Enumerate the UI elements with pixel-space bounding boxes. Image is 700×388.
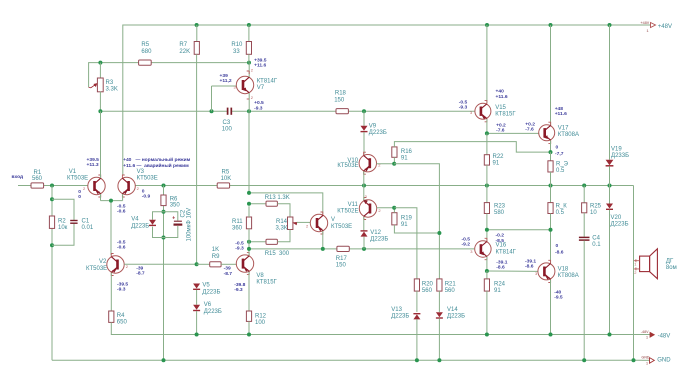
svg-text:R12: R12 [255,313,267,319]
svg-text:-8.5: -8.5 [496,238,505,244]
svg-text:-9.3: -9.3 [234,287,243,293]
resistor R22 91 [484,133,504,185]
svg-text:-8.7: -8.7 [224,271,233,277]
svg-text:V3: V3 [137,169,145,175]
svg-text:V12: V12 [370,230,381,236]
svg-text:0.5: 0.5 [556,210,565,216]
svg-text:33: 33 [233,49,240,55]
transistor V8 KT815G [224,249,278,311]
svg-text:150: 150 [334,98,345,104]
port +48V [640,21,672,33]
svg-text:GND: GND [657,357,671,363]
resistor R15 300 [247,230,290,257]
svg-text:V1: V1 [69,169,77,175]
wire +48V top rail [123,25,640,175]
svg-text:R24: R24 [494,281,506,287]
svg-text:КТ503Е: КТ503Е [137,175,158,181]
svg-text:3.3K: 3.3K [106,87,118,93]
svg-text:0: 0 [556,243,559,249]
svg-text:-9.2: -9.2 [462,242,471,248]
resistor R5 10K feedback [217,169,231,188]
svg-text:-39.5: -39.5 [117,281,128,287]
svg-text:C3: C3 [223,120,231,126]
svg-text:-39: -39 [224,266,231,272]
svg-text:КТ815Г: КТ815Г [495,111,516,117]
svg-text:91: 91 [493,161,500,167]
svg-text:0: 0 [142,188,145,194]
svg-text:+40: +40 [496,89,505,95]
resistor R2 10k [49,216,67,231]
svg-text:R13 1.3K: R13 1.3K [265,195,290,201]
resistor R6 350 [161,195,180,209]
svg-text:+40 — нормальный режим: +40 — нормальный режим [123,156,190,163]
svg-text:+11.6: +11.6 [555,111,567,117]
transistor V15 KT815G [459,25,517,134]
svg-text:+11.6: +11.6 [254,63,266,69]
wire bootstrap R16 top [394,142,550,153]
transistor V7 KT814G [212,63,278,112]
resistor R1 560 [31,170,44,188]
transistor V18 KT808A [525,243,579,335]
svg-text:100: 100 [255,320,266,326]
wire -48V rail [111,333,641,337]
capacitor C4 0.1 [579,236,601,361]
svg-text:-48V: -48V [641,330,649,334]
svg-text:КТ502Е: КТ502Е [337,209,358,215]
port -48V [641,330,670,340]
diode V5 D223B [193,283,220,296]
svg-text:Д223Б: Д223Б [447,314,465,320]
svg-text:+0.5: +0.5 [254,100,264,106]
svg-text:-0.5: -0.5 [117,203,126,209]
svg-text:100: 100 [222,127,233,133]
svg-text:КТ814Г: КТ814Г [257,79,278,85]
svg-text:-8.6: -8.6 [555,250,564,256]
svg-text:+0.2: +0.2 [496,122,506,128]
svg-text:0: 0 [78,194,81,200]
svg-text:-39.1: -39.1 [496,259,507,265]
svg-text:Д223Б: Д223Б [131,223,149,229]
svg-text:350: 350 [170,203,181,209]
svg-text:-0.5: -0.5 [235,240,244,246]
svg-text:R15 300: R15 300 [265,251,290,257]
port GND [641,355,671,365]
svg-text:150: 150 [336,263,347,269]
svg-text:+48V: +48V [641,21,650,25]
svg-text:V4: V4 [131,217,139,223]
resistor R5 680 [139,42,152,65]
svg-text:V13: V13 [391,307,402,313]
resistor R10 33 [231,25,251,63]
svg-text:1: 1 [646,336,648,340]
svg-text:V20: V20 [611,215,622,221]
svg-text:Д223Б: Д223Б [370,237,388,243]
svg-text:0.1: 0.1 [592,242,601,248]
transistor V3 KT503E [118,169,158,201]
svg-text:V15: V15 [495,105,506,111]
wire VAS row y111.2 [100,110,474,112]
diode V12 D223B [361,230,389,249]
wire driver row y248.9 [247,247,474,251]
resistor R18 150 [334,91,348,114]
svg-text:560: 560 [445,288,456,294]
resistor R_E 0.5 [548,152,569,185]
svg-text:R1: R1 [34,170,42,176]
svg-text:-48V: -48V [658,333,671,339]
svg-text:-9.3: -9.3 [459,105,468,111]
wire V5-V6 [196,290,198,305]
resistor R7 22K [179,25,199,55]
svg-text:680: 680 [141,49,152,55]
svg-text:-9.3: -9.3 [235,246,244,252]
svg-text:560: 560 [32,176,43,182]
label voltages V7 [220,57,267,111]
svg-text:Д223Б: Д223Б [611,222,629,228]
svg-text:R_К: R_К [556,204,568,210]
svg-text:+0.2: +0.2 [525,121,535,127]
resistor R12 100 [246,311,266,335]
diode V6 D223B [193,302,222,334]
svg-text:+11.6: +11.6 [496,94,508,100]
svg-text:C4: C4 [592,236,600,242]
svg-text:V8: V8 [256,273,264,279]
svg-text:R18: R18 [335,91,347,97]
svg-text:-39: -39 [136,265,143,271]
node V17 emitter [549,150,553,154]
resistor R20 560 [414,279,433,312]
wire input row y185.5 [18,185,634,187]
svg-text:8ом: 8ом [666,265,677,271]
node +48V rail junctions [195,23,612,27]
svg-text:650: 650 [117,319,128,325]
svg-text:V6: V6 [204,302,212,308]
svg-text:Д223Б: Д223Б [391,314,409,320]
svg-text:-7.6: -7.6 [496,128,505,134]
svg-text:КТ503Е: КТ503Е [86,266,107,272]
diode V13 D223B [391,307,420,360]
wire V16 out to V18 base [485,269,538,273]
node V2 base junction [195,262,199,266]
svg-text:-8.6: -8.6 [496,265,505,271]
wire V11 base row to R20 column [394,208,417,279]
transistor V17 KT808A [525,25,579,157]
svg-text:1: 1 [646,362,648,366]
svg-text:-0.2: -0.2 [496,233,505,239]
svg-text:0.01: 0.01 [82,225,94,231]
resistor R_K 0.5 [548,186,567,264]
diode V4 D223B [131,212,163,238]
wire V3 base node x163.5 [162,186,166,361]
svg-text:V: V [331,217,335,223]
label input [12,175,25,180]
svg-text:R19: R19 [401,216,413,222]
svg-text:V7: V7 [257,85,265,91]
svg-text:R22: R22 [493,154,505,160]
node y111.2 junctions [98,109,366,113]
node y62.6 junctions [98,61,251,65]
svg-text:+48: +48 [555,106,564,112]
svg-text:0: 0 [556,145,559,151]
svg-text:C1: C1 [82,219,90,225]
svg-text:R5: R5 [222,169,230,175]
svg-text:R5: R5 [141,42,149,48]
diode V9 D223B [361,111,387,154]
resistor R13 1.3K [249,195,290,217]
svg-text:КТ503Е: КТ503Е [331,224,352,230]
svg-text:Д233Б: Д233Б [611,153,629,159]
svg-text:Д223Б: Д223Б [202,290,220,296]
svg-text:560: 560 [422,288,433,294]
svg-text:КТ814Г: КТ814Г [496,249,517,255]
svg-text:КТ808А: КТ808А [558,132,579,138]
speaker DG 8om [634,249,677,279]
svg-text:R21: R21 [445,281,457,287]
transistor V10 KT503E [337,152,394,185]
transistor V bias KT503E [235,212,352,252]
svg-text:КТ503Е: КТ503Е [337,163,358,169]
node R13 left [247,202,251,206]
svg-text:V19: V19 [611,147,622,153]
svg-text:-39.8: -39.8 [234,282,245,288]
svg-text:+11.6 — аварийный режим: +11.6 — аварийный режим [123,162,189,169]
svg-text:91: 91 [401,222,408,228]
svg-text:91: 91 [494,288,501,294]
svg-text:R10: R10 [231,42,243,48]
transistor V11 KT502E [337,186,394,231]
svg-text:-39.1: -39.1 [525,258,536,264]
svg-text:580: 580 [494,210,505,216]
resistor R24 91 [484,271,505,335]
wire GND rail [52,358,642,362]
svg-text:+: + [172,216,175,222]
wire output to speaker [633,186,635,361]
resistor R3 3.3K trimmer [89,63,118,112]
svg-text:-7,7: -7,7 [555,151,564,157]
transistor V2 KT503E current source [86,203,197,311]
svg-text:+48V: +48V [658,24,672,30]
svg-text:R_Э: R_Э [556,162,569,168]
wire input node x52 [50,186,54,361]
resistor R9 1K [197,247,237,267]
svg-text:вход: вход [12,175,25,180]
svg-text:-8.7: -8.7 [136,271,145,277]
svg-text:R11: R11 [232,219,243,225]
node output rail junctions [50,184,612,188]
resistor R11 360 [232,217,252,232]
transistor V1 KT503E [67,111,105,200]
svg-text:-0.6: -0.6 [117,209,126,215]
svg-text:R6: R6 [170,196,178,202]
svg-text:-0.5: -0.5 [117,239,126,245]
svg-text:+11.3: +11.3 [87,162,99,168]
svg-text:R7: R7 [179,42,187,48]
capacitor C3 100 [222,108,233,133]
svg-text:V14: V14 [447,307,458,313]
svg-text:0.5: 0.5 [556,168,565,174]
svg-text:R4: R4 [117,313,125,319]
resistor R23 580 [484,186,505,241]
svg-text:V2: V2 [99,259,107,265]
resistor R14 3.3K trimmer [276,217,311,232]
capacitor C1 0.01 [52,199,94,245]
svg-text:C2: C2 [180,209,186,217]
transistor V16 KT814G [462,233,517,271]
svg-text:+39.5: +39.5 [87,157,100,163]
svg-text:-40: -40 [554,290,561,296]
svg-text:100мкФ 16V: 100мкФ 16V [187,208,193,242]
svg-text:-9.3: -9.3 [117,287,126,293]
svg-text:0: 0 [78,189,81,195]
wire R7 bias chain x196.6 [196,54,198,264]
diode V19 D233B [606,25,629,186]
wire R11 chain [248,206,250,249]
svg-text:R23: R23 [494,204,506,210]
diode V20 D223B [606,186,629,335]
svg-text:-0.5: -0.5 [459,99,468,105]
svg-text:GND: GND [641,355,650,359]
svg-text:+11,2: +11,2 [220,78,232,84]
wire R23-RK bottoms y229.8 [485,228,553,232]
svg-text:360: 360 [232,226,243,232]
resistor R21 560 [437,279,457,312]
svg-text:Д223Б: Д223Б [369,130,387,136]
svg-text:R14: R14 [276,219,288,225]
svg-text:V9: V9 [369,123,377,129]
diode V14 D223B [436,307,465,360]
svg-text:R20: R20 [422,281,434,287]
resistor R17 150 [336,246,350,268]
svg-text:R9: R9 [212,254,220,260]
svg-text:V11: V11 [348,202,359,208]
svg-text:ДГ: ДГ [666,258,674,264]
resistor R4 650 [109,311,197,335]
wire R5 feedback row y62.6 [89,63,249,88]
svg-text:10к: 10к [58,225,68,231]
svg-text:-0.6: -0.6 [117,245,126,251]
resistor R19 91 [392,206,442,235]
svg-text:22K: 22K [179,49,190,55]
svg-text:R16: R16 [401,149,413,155]
svg-text:-0.9: -0.9 [142,194,151,200]
svg-text:10K: 10K [221,176,232,182]
svg-text:КТ503Е: КТ503Е [67,175,88,181]
svg-text:V18: V18 [558,266,569,272]
svg-text:-9.5: -9.5 [554,295,563,301]
svg-text:R3: R3 [106,80,114,86]
svg-text:3,3К: 3,3К [276,226,288,232]
svg-text:1: 1 [647,29,649,33]
resistor R16 91 [392,147,413,166]
svg-text:V5: V5 [202,283,210,289]
svg-text:R25: R25 [590,204,602,210]
svg-text:1K: 1K [212,247,219,253]
capacitor C2 100uF [164,208,193,242]
svg-text:-7.6: -7.6 [525,127,534,133]
svg-text:Д223Б: Д223Б [204,309,222,315]
wire V15 emitter to V17 base [485,131,539,135]
svg-text:10: 10 [590,210,597,216]
wire V10 base to R21 column [394,164,439,279]
svg-text:КТ808А: КТ808А [558,273,579,279]
svg-text:КТ815Г: КТ815Г [256,280,277,286]
svg-text:+39.5: +39.5 [254,57,267,63]
svg-text:+39: +39 [220,73,229,79]
label modes [123,156,190,169]
wire Vbe multiplier top [247,191,323,214]
svg-text:-9.3: -9.3 [254,105,263,111]
wire diff pair emitters [101,199,123,256]
svg-text:R2: R2 [58,219,66,225]
svg-text:-0.5: -0.5 [462,236,471,242]
wire V7 collector chain x249 [248,111,250,193]
svg-text:-8.6: -8.6 [525,264,534,270]
svg-text:V17: V17 [558,126,569,132]
svg-text:91: 91 [401,156,408,162]
resistor R25 10 [582,186,602,237]
svg-text:R17: R17 [336,256,348,262]
